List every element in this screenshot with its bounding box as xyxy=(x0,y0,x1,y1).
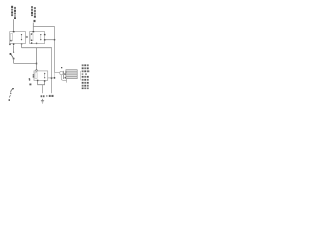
relay K2 box xyxy=(30,32,45,44)
relay K1 bottom pin 1 xyxy=(13,43,14,45)
relay K3 bottom pin a xyxy=(37,80,38,82)
wire center vertical to CN box xyxy=(36,48,38,70)
relay K3 box xyxy=(34,71,48,81)
switch S1 arrow head xyxy=(10,53,12,55)
switch S1 blade xyxy=(11,54,14,59)
faint continuation of right drop xyxy=(54,73,56,78)
relay K1 box xyxy=(10,32,26,44)
plug feed vertical xyxy=(63,71,65,79)
decorative curl mark bottom-left xyxy=(11,89,13,93)
wire K3 right pin to plug area xyxy=(48,77,55,79)
relay K1 bottom pin 2 xyxy=(21,43,22,44)
relay K2 right pin lower xyxy=(44,39,46,40)
bus wire horizontal xyxy=(22,47,52,49)
junction on drop xyxy=(51,77,52,79)
relay K1 coil xyxy=(10,34,12,41)
relay K2 contact xyxy=(40,34,42,40)
label text B (vertical, 2 columns) xyxy=(31,6,36,22)
wire from node B to right drop xyxy=(33,26,55,28)
junction dot at K2 pin wire xyxy=(54,39,56,41)
plug tick mark xyxy=(61,67,62,68)
tiny tick mark far bottom-left xyxy=(9,95,10,97)
relay K1 contact xyxy=(21,34,23,40)
wire right drop vertical xyxy=(54,27,56,73)
plug feed into connector xyxy=(64,73,66,74)
relay K1 top entry pin xyxy=(13,31,15,32)
junction blob end of right drop xyxy=(54,77,56,79)
relay K3 bottom pin b xyxy=(44,80,45,82)
relay K2 right pin upper xyxy=(44,34,46,35)
tiny label near ground wire xyxy=(41,95,45,97)
relay K2 top entry pin xyxy=(33,31,35,32)
jumper U-wire under K3 xyxy=(38,81,45,85)
switch S1 wire lower xyxy=(13,58,15,63)
bus corner drop at right xyxy=(51,48,53,93)
connector CN box with rows xyxy=(66,70,77,79)
wire down to ground xyxy=(42,85,44,94)
relay K1 right pin terminal xyxy=(25,36,28,38)
switch S1 upper contact dot xyxy=(13,52,14,53)
relay K2 coil xyxy=(31,34,33,41)
wire drop to plug circle xyxy=(55,72,60,74)
label text A (vertical, 2 columns) xyxy=(11,6,16,19)
plug terminal circle on CN1 top xyxy=(36,70,38,72)
legend text rows xyxy=(82,64,90,89)
relay K3 contact xyxy=(44,73,46,79)
legend leader line xyxy=(80,71,82,80)
tiny label left of K3 pins xyxy=(29,78,30,79)
switch S1 lower contact xyxy=(13,58,15,60)
relay K3 coil xyxy=(35,73,37,79)
wire plug to connector bottom xyxy=(61,75,66,81)
plug circle P1 xyxy=(60,71,63,74)
wire A (from label A down to relay K1) xyxy=(13,19,15,31)
wire K2 lower pin to right drop xyxy=(46,39,55,41)
connector bottom stub xyxy=(66,79,68,83)
relay K2 bottom pin marks xyxy=(31,42,32,44)
switch S1 wire upper xyxy=(13,45,15,52)
relay K3 bottom-left pin xyxy=(29,79,30,80)
relay K1 bottom-left corner pin xyxy=(9,44,11,46)
wire B (from label B down to relay K2) xyxy=(32,23,34,32)
junction where switch wire joins xyxy=(36,63,37,65)
relay K3 left pins xyxy=(33,74,34,75)
wire switch to center vertical xyxy=(14,62,37,64)
ground symbol xyxy=(41,99,44,103)
wire K1 bottom pin2 down xyxy=(21,44,23,48)
tiny label AC source xyxy=(46,95,53,97)
connector left edge dark marks xyxy=(65,71,66,72)
